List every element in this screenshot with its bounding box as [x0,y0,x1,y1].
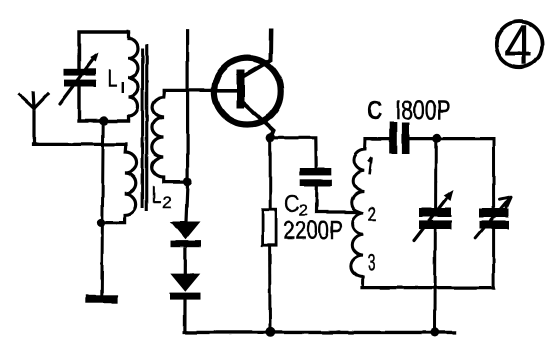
node: L2 bottom junction [183,177,192,186]
node: tank bottom junction [99,116,108,125]
diode D2 [170,274,200,292]
wire D2 to bottom rail [184,300,186,333]
node: resistor bottom on rail [265,327,275,337]
diode D1 [170,222,200,240]
wire resistor to bottom rail [268,245,271,329]
transistor Q1 collector [243,31,271,77]
variable capacitor C3 arrow [414,199,446,241]
node: tuning branch on rail [430,328,439,337]
transistor Q1 base lead inside [213,89,237,93]
transistor Q1 circle [214,58,280,124]
wire antenna to coupling coil [33,143,126,146]
right tank top rail wire [365,137,493,140]
node: top rail junction [432,134,441,143]
wire C4 to tank bottom rail [492,229,495,288]
wire C2 to coil tap 2 [317,186,356,212]
svg-text:2: 2 [163,193,172,212]
svg-text:3: 3 [368,250,376,276]
label tap 1 [368,158,371,175]
wire C3 to bottom rail [434,229,437,332]
wire top junction to variable capacitor C3 [434,138,437,208]
tap 2 arrowhead [356,209,365,216]
svg-text:C: C [367,95,383,125]
wire vertical diode branch (top rail to D1) [186,30,188,222]
ground GND [86,295,118,303]
variable capacitor C4 arrow [476,197,511,239]
right tank bottom rail [362,286,494,289]
wire emitter to C2 [270,138,316,169]
inductor L2 (secondary) [152,91,188,182]
transistor Q1 emitter [243,103,274,137]
svg-text:4: 4 [505,13,533,77]
wire emitter junction to resistor R1 [269,141,272,209]
variable capacitor C3 plates [419,208,452,217]
svg-text:C: C [285,191,300,217]
antenna ANT [20,93,48,144]
svg-text:I800P: I800P [396,95,451,125]
main bottom rail [184,331,455,334]
capacitor C plates [390,122,398,154]
wire top rail right corner to C4 [492,139,495,208]
tank loop wire (top, left, bottom sides) [79,32,129,121]
node: emitter junction [266,133,275,142]
transistor Q1 base bar [237,70,245,109]
variable capacitor C1 plates [64,69,96,76]
svg-text:2200P: 2200P [284,217,343,245]
svg-text:L: L [152,182,162,209]
wire D1 to D2 [184,247,187,274]
resistor R1 [263,209,277,245]
wire tank junction down to ground [102,121,103,295]
coupling coil La (lower left primary) [102,145,137,223]
svg-text:L: L [108,65,118,92]
variable capacitor C1 arrow [60,58,95,104]
figure number circle 4 [496,22,542,68]
inductor L3 (tapped coil) [351,139,365,288]
capacitor C2 plates [299,168,331,175]
svg-text:2: 2 [368,204,377,226]
variable capacitor C4 plates [479,208,509,217]
transformer core T1 [141,48,144,208]
inductor L1 [129,32,139,121]
wire base (L2 top to transistor base) [164,89,213,92]
node: coupling coil bottom junction [97,218,106,227]
